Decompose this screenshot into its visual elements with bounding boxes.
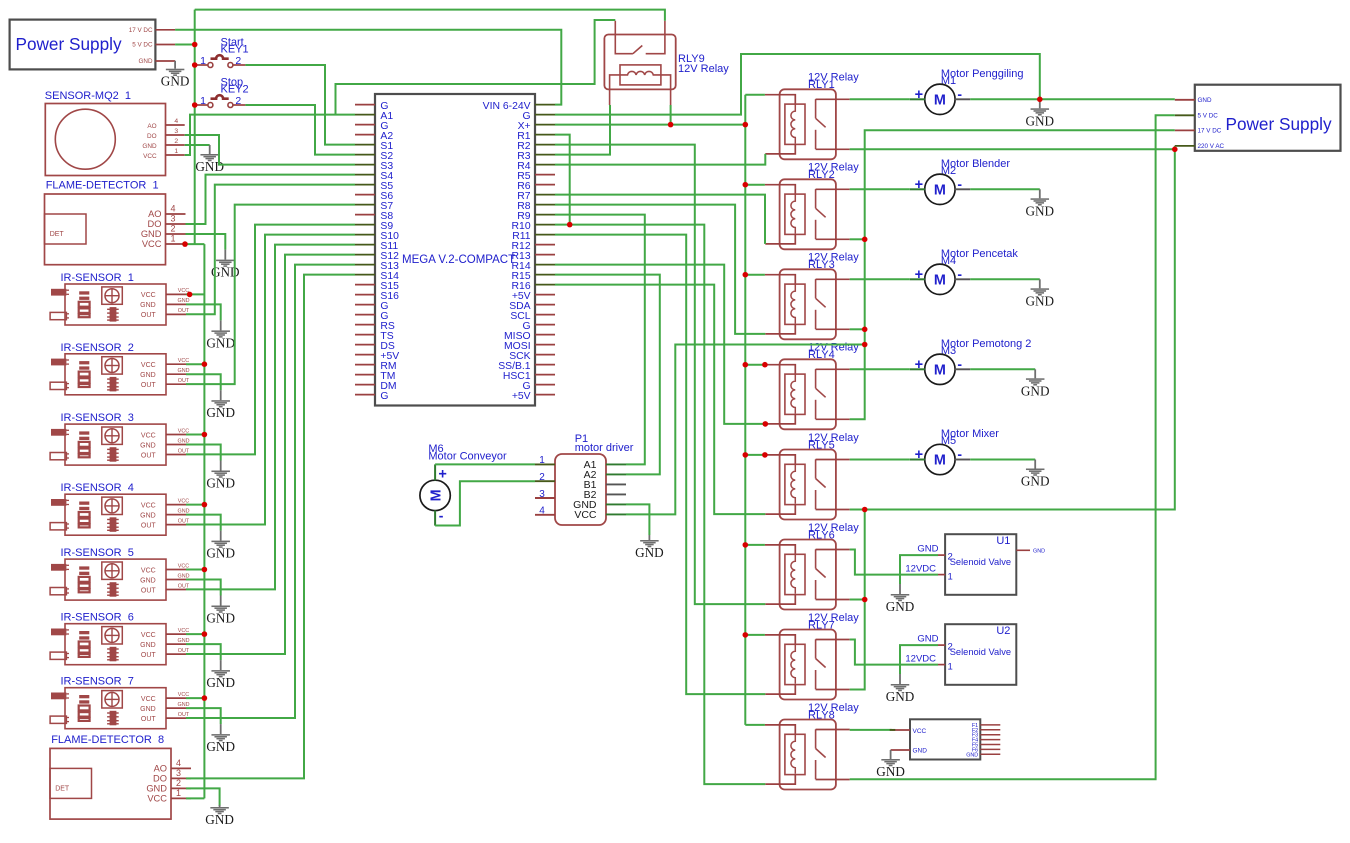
wire RLY3 switch bottom to 17V bus xyxy=(850,328,865,330)
wire 220V to RLY1 switch bottom xyxy=(850,148,1175,150)
ground symbol for P1 driver xyxy=(635,535,664,560)
flame sensor FLAME-DETECTOR 1 xyxy=(45,180,186,265)
wire R11 to RLY7 coil xyxy=(555,235,765,694)
pushbutton switch KEY2 (Stop) xyxy=(195,76,249,107)
svg-text:GND: GND xyxy=(966,752,978,758)
wire coil supply rail x=745.3 xyxy=(744,95,746,725)
wire RLY6 switch to U1 12VDC xyxy=(850,550,938,575)
ground symbol for valve U2 xyxy=(886,674,915,704)
wire P1 GND to ground xyxy=(626,504,649,535)
svg-text:GND: GND xyxy=(178,638,190,644)
infrared sensor IR-SENSOR 4 xyxy=(50,482,190,535)
svg-text:1: 1 xyxy=(170,233,175,243)
microcontroller board MEGA V.2-COMPACT xyxy=(355,94,555,406)
ground symbol for IR-SENSOR 4 xyxy=(206,531,235,561)
wire IR1 GND to ground xyxy=(186,304,221,320)
motor M1 (Motor Penggiling) xyxy=(910,68,1024,115)
ground symbol for connector xyxy=(876,750,905,779)
wire R10 to RLY8 coil xyxy=(555,225,765,785)
wire RLY2 switch bottom to 17V bus xyxy=(850,238,865,240)
svg-text:3: 3 xyxy=(174,128,178,135)
svg-text:12VDC: 12VDC xyxy=(905,654,936,665)
svg-text:+: + xyxy=(915,357,923,373)
svg-text:3: 3 xyxy=(170,213,175,223)
svg-text:5 V DC: 5 V DC xyxy=(132,42,153,49)
svg-text:GND: GND xyxy=(178,438,190,444)
wire IR4 GND to ground xyxy=(186,515,221,531)
svg-text:2: 2 xyxy=(948,642,953,653)
wire rail to RLY8 coil pin xyxy=(745,724,765,726)
svg-text:GND: GND xyxy=(913,748,928,755)
svg-text:+: + xyxy=(915,87,923,103)
solenoid valve U2 xyxy=(905,624,1016,685)
svg-text:OUT: OUT xyxy=(141,382,157,389)
wire R4 to RLY1 coil xyxy=(555,154,765,165)
svg-text:5 V DC: 5 V DC xyxy=(1198,113,1219,120)
wire IR6 GND to ground xyxy=(186,644,221,660)
wire IR4 OUT to MEGA xyxy=(186,235,355,525)
wire R1 to R10 junction xyxy=(555,135,570,225)
svg-text:DO: DO xyxy=(148,219,162,229)
wire MEGA G to top-right run xyxy=(555,54,1040,115)
wire 17V DC to MEGA VIN xyxy=(175,30,561,105)
svg-text:VCC: VCC xyxy=(141,696,156,703)
svg-text:DET: DET xyxy=(50,231,65,238)
motor driver P1 xyxy=(535,433,634,525)
wire IR7 VCC to rail xyxy=(186,697,204,699)
wire 5V right PSU down to RLY8 xyxy=(850,115,1175,779)
wire IR5 GND to ground xyxy=(186,580,221,596)
svg-text:GND: GND xyxy=(178,298,190,304)
gas sensor SENSOR-MQ2 1 xyxy=(45,90,185,176)
wire IR2 GND to ground xyxy=(186,374,221,390)
motor M5 (Motor Mixer) xyxy=(910,428,999,475)
wire A1 node to RLY9 switch left xyxy=(336,20,616,115)
wire M3 minus to ground xyxy=(970,368,1035,370)
svg-text:IR-SENSOR 7: IR-SENSOR 7 xyxy=(61,676,134,688)
svg-text:Power Supply: Power Supply xyxy=(1226,114,1332,134)
ground symbol below left power supply xyxy=(161,61,190,89)
svg-text:G: G xyxy=(380,391,388,402)
wire rail to RLY2 coil pin xyxy=(745,184,765,186)
svg-text:DET: DET xyxy=(55,785,70,792)
wire 5V DC from left power supply to rail xyxy=(175,44,195,46)
svg-text:GND: GND xyxy=(1198,97,1212,104)
svg-text:-: - xyxy=(439,507,444,523)
svg-text:GND: GND xyxy=(141,229,162,239)
svg-text:12V Relay: 12V Relay xyxy=(678,63,729,75)
svg-text:GND: GND xyxy=(140,512,156,519)
svg-text:IR-SENSOR 4: IR-SENSOR 4 xyxy=(61,482,134,494)
svg-text:1: 1 xyxy=(174,148,178,155)
wire KEY1 to MEGA S1 xyxy=(245,65,355,145)
connector module (F1-F6 outputs) xyxy=(891,719,1001,759)
svg-text:M: M xyxy=(934,183,946,199)
infrared sensor IR-SENSOR 1 xyxy=(50,272,190,325)
svg-text:DO: DO xyxy=(147,133,157,140)
wire 220V AC down right side xyxy=(865,146,1175,510)
svg-text:2: 2 xyxy=(170,223,175,233)
svg-text:M: M xyxy=(934,273,946,289)
wire rail to RLY1 coil pin xyxy=(745,94,765,96)
wire lower contact bus x=864.7 xyxy=(850,510,865,690)
svg-text:VCC: VCC xyxy=(143,153,157,160)
wire 5V vertical rail x=194.7 xyxy=(194,10,196,245)
svg-text:AO: AO xyxy=(148,209,161,219)
wire IR2 OUT to MEGA xyxy=(186,205,355,385)
svg-text:4: 4 xyxy=(174,118,178,125)
svg-text:VCC: VCC xyxy=(178,692,189,698)
svg-text:OUT: OUT xyxy=(141,522,157,529)
svg-text:VCC: VCC xyxy=(141,502,156,509)
svg-text:SENSOR-MQ2 1: SENSOR-MQ2 1 xyxy=(45,90,131,102)
svg-text:IR-SENSOR 5: IR-SENSOR 5 xyxy=(61,547,134,559)
svg-text:1: 1 xyxy=(948,572,953,583)
svg-text:GND: GND xyxy=(206,546,235,561)
infrared sensor IR-SENSOR 7 xyxy=(50,676,190,729)
infrared sensor IR-SENSOR 2 xyxy=(50,342,190,395)
svg-text:AO: AO xyxy=(147,123,156,130)
svg-text:GND: GND xyxy=(1026,293,1055,308)
wire FLAME8 GND to ground xyxy=(186,788,220,806)
svg-text:GND: GND xyxy=(1033,549,1045,555)
svg-text:OUT: OUT xyxy=(141,452,157,459)
wire IR1 VCC to rail xyxy=(186,293,204,295)
wire IR7 OUT to MEGA xyxy=(186,265,355,718)
pin label GND on U1 right pin xyxy=(1016,549,1030,551)
solenoid valve U1 xyxy=(905,534,1016,595)
svg-text:GND: GND xyxy=(140,642,156,649)
svg-text:GND: GND xyxy=(876,764,905,779)
wire RLY7 switch to U2 12VDC xyxy=(850,640,938,665)
relay RLY8 (12V Relay) xyxy=(765,702,859,790)
wire MEGA X+ to coil rail xyxy=(555,124,745,126)
svg-text:3: 3 xyxy=(176,768,181,778)
svg-text:GND: GND xyxy=(139,58,153,65)
svg-text:GND: GND xyxy=(140,577,156,584)
svg-text:VCC: VCC xyxy=(141,632,156,639)
svg-text:GND: GND xyxy=(140,442,156,449)
svg-text:FLAME-DETECTOR 8: FLAME-DETECTOR 8 xyxy=(51,734,164,746)
wire RLY1 switch to motor M1 xyxy=(850,98,910,100)
wire MQ2 GND to ground xyxy=(185,144,210,146)
svg-text:GND: GND xyxy=(178,368,190,374)
svg-text:GND: GND xyxy=(161,74,190,89)
wire rail to RLY5 coil pin xyxy=(745,454,765,456)
svg-text:GND: GND xyxy=(1026,113,1055,128)
relay RLY4 (12V Relay) xyxy=(765,342,859,430)
wire sensor VCC rail x=204.4 xyxy=(203,244,205,798)
relay RLY6 (12V Relay) xyxy=(765,522,859,610)
ground symbol for IR-SENSOR 7 xyxy=(206,724,235,754)
wire 17V right PSU to bus xyxy=(850,130,1175,419)
wire M1 minus to right PSU GND xyxy=(970,98,1175,100)
wire rail to RLY7 coil pin xyxy=(745,634,765,636)
infrared sensor IR-SENSOR 5 xyxy=(50,547,190,600)
wire R16 to RLY5 coil xyxy=(555,285,765,514)
svg-text:VCC: VCC xyxy=(178,358,189,364)
wire rail to RLY3 coil pin xyxy=(745,274,765,276)
svg-text:VCC: VCC xyxy=(141,362,156,369)
svg-text:GND: GND xyxy=(635,545,664,560)
svg-text:IR-SENSOR 3: IR-SENSOR 3 xyxy=(61,412,134,424)
wire R2 to RLY6 coil xyxy=(555,145,765,604)
pushbutton switch KEY1 (Start) xyxy=(195,36,249,67)
svg-text:OUT: OUT xyxy=(141,652,157,659)
svg-text:OUT: OUT xyxy=(141,716,157,723)
flame sensor FLAME-DETECTOR 8 xyxy=(50,734,191,819)
svg-text:1: 1 xyxy=(948,662,953,673)
svg-text:GND: GND xyxy=(142,143,157,150)
wire M6 minus to P1 pin2 xyxy=(435,481,535,525)
relay RLY1 (12V Relay) xyxy=(765,72,859,160)
svg-text:GND: GND xyxy=(1021,474,1050,489)
svg-text:GND: GND xyxy=(178,573,190,579)
wire IR6 OUT to MEGA xyxy=(186,255,355,654)
svg-text:VCC: VCC xyxy=(574,509,597,521)
wire MQ2 VCC up to A1 row xyxy=(185,115,355,155)
relay RLY9 (12V Relay) xyxy=(604,21,729,105)
svg-text:VCC: VCC xyxy=(178,428,189,434)
svg-text:2: 2 xyxy=(539,472,545,483)
wire IR4 VCC to rail xyxy=(186,504,204,506)
ground symbol for IR-SENSOR 1 xyxy=(206,320,235,350)
wire IR3 VCC to rail xyxy=(186,434,204,436)
svg-text:Selenoid Valve: Selenoid Valve xyxy=(950,557,1011,567)
svg-text:VCC: VCC xyxy=(178,498,189,504)
svg-text:Power Supply: Power Supply xyxy=(16,34,122,54)
motor M2 (Motor Blender) xyxy=(910,158,1011,205)
svg-text:GND: GND xyxy=(917,544,938,555)
wire rail to RLY6 coil pin xyxy=(745,544,765,546)
svg-text:GND: GND xyxy=(206,476,235,491)
svg-text:GND: GND xyxy=(206,405,235,420)
svg-text:17 V DC: 17 V DC xyxy=(129,27,153,34)
svg-text:Motor Conveyor: Motor Conveyor xyxy=(428,451,507,463)
wire KEY2 to MEGA S2 xyxy=(245,105,355,155)
svg-text:4: 4 xyxy=(170,203,175,213)
svg-text:GND: GND xyxy=(917,634,938,645)
wire RLY5 switch bottom stub xyxy=(850,509,865,511)
svg-text:+: + xyxy=(915,447,923,463)
svg-text:DO: DO xyxy=(153,773,167,783)
wire FLAME1 DO to MEGA S4 xyxy=(186,175,356,224)
wire MQ2 DO to MEGA S3 xyxy=(185,135,355,165)
svg-text:VCC: VCC xyxy=(141,567,156,574)
ground symbol at motor M4 xyxy=(1026,279,1055,308)
motor M3 (Motor Pemotong 2) xyxy=(910,338,1032,385)
wire FLAME1 VCC to sensor VCC rail xyxy=(182,243,204,245)
svg-text:IR-SENSOR 6: IR-SENSOR 6 xyxy=(61,612,134,624)
wire RLY8 switch to connector VCC xyxy=(850,729,892,731)
svg-text:GND: GND xyxy=(1021,383,1050,398)
svg-text:IR-SENSOR 1: IR-SENSOR 1 xyxy=(61,272,134,284)
svg-text:U1: U1 xyxy=(996,535,1010,547)
svg-text:GND: GND xyxy=(205,812,234,827)
svg-text:GND: GND xyxy=(178,508,190,514)
wire rail to RLY4 coil pin xyxy=(745,364,765,366)
svg-text:GND: GND xyxy=(206,675,235,690)
svg-text:GND: GND xyxy=(178,702,190,708)
relay RLY3 (12V Relay) xyxy=(765,252,859,340)
svg-text:GND: GND xyxy=(140,302,156,309)
infrared sensor IR-SENSOR 3 xyxy=(50,412,190,465)
svg-text:4: 4 xyxy=(176,758,181,768)
wire IR5 VCC to rail xyxy=(186,569,204,571)
wire R3 to RLY9 coil xyxy=(555,105,610,155)
svg-text:KEY1: KEY1 xyxy=(221,43,249,55)
svg-text:VCC: VCC xyxy=(142,239,162,249)
ground symbol for SENSOR-MQ2 xyxy=(195,145,224,174)
svg-text:+: + xyxy=(915,177,923,193)
svg-text:GND: GND xyxy=(140,372,156,379)
wire IR6 VCC to rail xyxy=(186,633,204,635)
power supply PS2 (right) xyxy=(1175,85,1341,151)
ground symbol at motor M5 xyxy=(1021,460,1050,489)
svg-text:17 V DC: 17 V DC xyxy=(1198,128,1222,135)
ground symbol at motor M1 xyxy=(1026,99,1055,128)
wire M4 minus to ground xyxy=(970,278,1040,280)
ground symbol at motor M3 xyxy=(1021,369,1050,398)
svg-text:FLAME-DETECTOR 1: FLAME-DETECTOR 1 xyxy=(46,180,159,192)
wire IR7 GND to ground xyxy=(186,708,221,724)
relay RLY5 (12V Relay) xyxy=(765,432,859,520)
svg-text:VCC: VCC xyxy=(178,628,189,634)
relay RLY2 (12V Relay) xyxy=(765,162,859,250)
svg-text:GND: GND xyxy=(146,783,167,793)
motor M6 (Motor Conveyor) xyxy=(420,443,507,526)
svg-text:+: + xyxy=(915,267,923,283)
wire R8 to RLY3 coil xyxy=(555,205,765,334)
svg-text:U2: U2 xyxy=(996,625,1010,637)
svg-text:+5V: +5V xyxy=(512,391,531,402)
wire U1 GND pin to ground xyxy=(900,555,938,584)
svg-text:4: 4 xyxy=(539,506,545,517)
wire RLY5 switch to motor M5 xyxy=(850,459,910,461)
wire RLY6 switch bottom to bus xyxy=(850,599,865,601)
wire R7 to RLY2 coil xyxy=(555,195,765,244)
svg-text:2: 2 xyxy=(174,138,178,145)
wire R9 to driver A1 xyxy=(555,215,645,465)
svg-text:GND: GND xyxy=(886,599,915,614)
wire IR3 OUT to MEGA xyxy=(186,225,355,455)
ground symbol for IR-SENSOR 2 xyxy=(206,390,235,420)
wire IR1 OUT to MEGA xyxy=(186,185,355,315)
wire IR2 VCC to rail xyxy=(186,363,204,365)
svg-text:OUT: OUT xyxy=(141,587,157,594)
svg-text:IR-SENSOR 2: IR-SENSOR 2 xyxy=(61,342,134,354)
wire M5 minus to ground xyxy=(970,459,1035,461)
wire top 5V run to RLY9 switch xyxy=(195,10,665,21)
svg-text:VCC: VCC xyxy=(147,793,167,803)
svg-text:VCC: VCC xyxy=(178,563,189,569)
wire FLAME8 VCC to rail xyxy=(186,797,204,799)
svg-text:GND: GND xyxy=(140,706,156,713)
svg-text:GND: GND xyxy=(1026,203,1055,218)
svg-text:GND: GND xyxy=(886,689,915,704)
svg-text:OUT: OUT xyxy=(141,312,157,319)
svg-text:1: 1 xyxy=(539,455,545,466)
svg-text:3: 3 xyxy=(539,489,545,500)
wire IR5 OUT to MEGA xyxy=(186,245,355,590)
svg-text:OUT: OUT xyxy=(178,583,190,589)
svg-text:M: M xyxy=(934,363,946,379)
svg-text:+: + xyxy=(438,466,446,482)
ground symbol for IR-SENSOR 6 xyxy=(206,660,235,690)
ground symbol at motor M2 xyxy=(1026,189,1055,218)
ground symbol for valve U1 xyxy=(886,584,915,614)
svg-text:12VDC: 12VDC xyxy=(905,564,936,575)
svg-text:GND: GND xyxy=(206,611,235,626)
svg-text:Selenoid Valve: Selenoid Valve xyxy=(950,647,1011,657)
wire M2 minus to ground xyxy=(970,188,1040,190)
svg-text:motor driver: motor driver xyxy=(575,442,634,454)
ground symbol for FLAME-DETECTOR 1 xyxy=(211,250,240,280)
wire IR3 GND to ground xyxy=(186,445,221,461)
wire M6 plus to P1 pin1 xyxy=(435,463,535,465)
power supply PS1 (left) xyxy=(10,20,176,70)
svg-text:M: M xyxy=(934,93,946,109)
wire RLY4 switch to motor M3 xyxy=(850,368,910,370)
svg-text:220 V AC: 220 V AC xyxy=(1198,143,1225,150)
svg-text:GND: GND xyxy=(206,739,235,754)
ground symbol for FLAME-DETECTOR 8 xyxy=(205,805,234,827)
svg-text:2: 2 xyxy=(948,552,953,563)
svg-text:VCC: VCC xyxy=(141,432,156,439)
svg-text:1: 1 xyxy=(176,788,181,798)
ground symbol for IR-SENSOR 3 xyxy=(206,461,235,491)
infrared sensor IR-SENSOR 6 xyxy=(50,612,190,665)
svg-text:AO: AO xyxy=(154,763,167,773)
svg-text:KEY2: KEY2 xyxy=(221,83,249,95)
wire RLY3 switch to motor M4 xyxy=(850,278,910,280)
motor M4 (Motor Pencetak) xyxy=(910,248,1019,295)
wire FLAME8 DO to MEGA S14 xyxy=(186,275,355,779)
wire R15 to driver A2 xyxy=(555,275,660,475)
wire P1 VCC to 17V bus xyxy=(626,345,865,515)
relay RLY7 (12V Relay) xyxy=(765,612,859,700)
wire RLY9 coil right to X+ xyxy=(670,105,672,125)
wire FLAME1 GND to ground xyxy=(186,234,226,250)
svg-text:2: 2 xyxy=(176,778,181,788)
svg-text:VCC: VCC xyxy=(141,292,156,299)
svg-text:M: M xyxy=(934,453,946,469)
svg-text:GND: GND xyxy=(206,335,235,350)
svg-text:M: M xyxy=(428,489,444,501)
svg-text:VCC: VCC xyxy=(913,728,927,735)
svg-text:MEGA V.2-COMPACT: MEGA V.2-COMPACT xyxy=(402,254,515,266)
wire RLY2 switch to motor M2 xyxy=(850,188,910,190)
wire R14 to RLY4 coil xyxy=(555,265,765,424)
wire U2 GND pin to ground xyxy=(900,645,938,674)
ground symbol for IR-SENSOR 5 xyxy=(206,596,235,626)
